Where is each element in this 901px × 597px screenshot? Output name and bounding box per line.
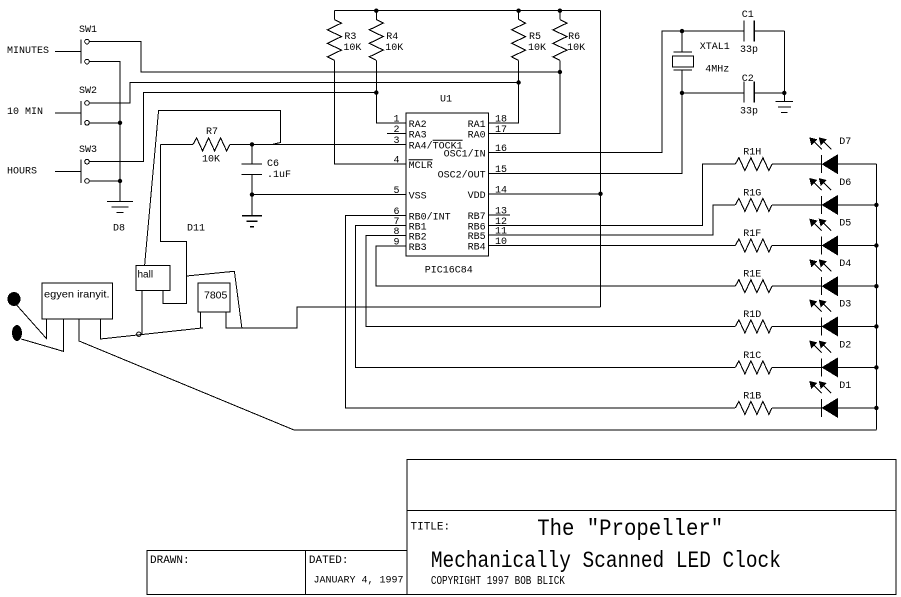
- junction R6 top on +5V rail: [558, 9, 562, 13]
- wire rectifier lead 4 raw DC bus to 7805 input: [100, 319, 203, 339]
- svg-text:R1G: R1G: [743, 188, 761, 199]
- svg-text:33p: 33p: [740, 107, 758, 118]
- wire pin15 OSC2/OUT to crystal bottom: [488, 93, 682, 174]
- svg-text:4: 4: [393, 155, 399, 166]
- LED D1: [810, 382, 876, 417]
- junction D2 on return rail: [874, 365, 878, 369]
- svg-text:D3: D3: [839, 299, 851, 310]
- wire R6 bottom to pin17 RA0: [488, 60, 560, 133]
- svg-text:RB0/INT: RB0/INT: [409, 211, 451, 223]
- svg-text:17: 17: [495, 125, 507, 136]
- wire pin11 RB5 to R1G row: [488, 205, 735, 235]
- svg-text:JANUARY 4, 1997: JANUARY 4, 1997: [314, 576, 404, 587]
- capacitor C6 .1uF: [242, 144, 263, 194]
- svg-text:RA0: RA0: [468, 131, 486, 142]
- wire hall ground lead: [141, 291, 143, 335]
- wire 7805 output to +5V rail: [226, 307, 600, 328]
- junction C2 right / ground: [782, 91, 786, 95]
- svg-text:R4: R4: [386, 32, 398, 43]
- resistor R1H: [735, 158, 821, 171]
- junction crystal bottom node: [680, 91, 684, 95]
- svg-text:RB5: RB5: [468, 232, 486, 243]
- junction SW1 wire on R6 line: [558, 70, 562, 74]
- svg-text:R1B: R1B: [743, 391, 761, 402]
- LED D3: [810, 300, 876, 335]
- svg-text:R6: R6: [568, 32, 580, 43]
- svg-text:RA3: RA3: [409, 131, 427, 142]
- resistor R3 10K: [327, 11, 341, 61]
- svg-text:R1F: R1F: [743, 229, 761, 240]
- junction R4 top on +5V rail: [374, 9, 378, 13]
- resistor R5 10K: [512, 11, 526, 61]
- ground symbol crystal: [776, 101, 794, 103]
- resistor R1D: [735, 320, 821, 333]
- svg-text:PIC16C84: PIC16C84: [425, 266, 473, 277]
- wire pin7 RB1 to R1C row: [356, 226, 735, 368]
- ground symbol below switches: [107, 201, 133, 203]
- wire +5V top rail: [334, 10, 600, 12]
- wire pin12 RB6 to R1H row: [488, 164, 735, 225]
- junction C6 bottom / VSS node: [250, 192, 254, 196]
- wire pin10 RB4 to R1F row: [488, 245, 735, 247]
- svg-text:COPYRIGHT 1997 BOB BLICK: COPYRIGHT 1997 BOB BLICK: [431, 574, 566, 588]
- wire rectifier lead 2 to AC blob 2: [21, 319, 63, 351]
- svg-text:U1: U1: [440, 94, 452, 105]
- wire pin8 RB2 to R1D row: [366, 235, 735, 326]
- wire R5 bottom to pin18 RA1: [488, 60, 518, 123]
- svg-text:RB3: RB3: [409, 243, 427, 254]
- svg-text:D7: D7: [839, 137, 851, 148]
- junction SW2 bottom on ground line: [118, 121, 122, 125]
- svg-text:D6: D6: [839, 178, 851, 189]
- ground symbol below C6: [251, 195, 253, 216]
- wire SW3 top contact to R4/pin1 net: [89, 93, 376, 162]
- wire rectifier lead 3 to LED return rail (long diagonal): [79, 319, 877, 430]
- svg-text:SW2: SW2: [79, 86, 97, 97]
- svg-text:C1: C1: [742, 10, 754, 21]
- svg-text:33p: 33p: [740, 45, 758, 56]
- LED D6: [810, 179, 876, 214]
- wire 5V branch from R7 node over 7805 to output net: [187, 271, 242, 328]
- junction D5 on return rail: [874, 243, 878, 247]
- wire pin6 RB0 to R1B row: [346, 215, 735, 408]
- svg-text:3: 3: [393, 136, 399, 147]
- svg-text:VDD: VDD: [468, 191, 486, 202]
- wire pin5 VSS to C6 ground node: [252, 194, 406, 196]
- svg-text:TITLE:: TITLE:: [411, 522, 451, 534]
- junction D1 on return rail: [874, 406, 878, 410]
- wire switch common ground line: [89, 62, 120, 202]
- svg-text:MINUTES: MINUTES: [7, 46, 49, 57]
- svg-text:OSC2/OUT: OSC2/OUT: [438, 170, 486, 182]
- resistor R4 10K: [369, 11, 383, 61]
- svg-text:HOURS: HOURS: [7, 167, 37, 178]
- svg-text:C2: C2: [742, 74, 754, 85]
- svg-text:R1D: R1D: [743, 310, 761, 321]
- title block outer box: [407, 459, 896, 594]
- svg-text:10K: 10K: [567, 43, 585, 54]
- junction D6 on return rail: [874, 203, 878, 207]
- resistor R6 10K: [553, 11, 567, 61]
- svg-text:10K: 10K: [528, 43, 546, 54]
- wire SW1 top contact to R6/pin17 net: [89, 42, 560, 72]
- svg-text:R1C: R1C: [743, 351, 761, 362]
- resistor R1G: [735, 198, 821, 211]
- wire LED common return rail: [875, 164, 877, 429]
- svg-text:10K: 10K: [385, 43, 403, 54]
- svg-text:C6: C6: [267, 159, 279, 170]
- svg-text:D1: D1: [839, 381, 851, 392]
- resistor R1F: [735, 239, 821, 252]
- junction SW3 bottom on ground line: [118, 179, 122, 183]
- LED D7: [810, 138, 876, 173]
- no-connect hook on hall ground lead: [137, 332, 141, 336]
- junction SW3 wire on R4 line: [374, 90, 378, 94]
- svg-text:egyen iranyit.: egyen iranyit.: [44, 289, 110, 301]
- junction SW2 wire on R5 line: [516, 80, 520, 84]
- wire SW2 top contact to R5/pin18 net: [89, 83, 518, 104]
- svg-text:R3: R3: [344, 32, 356, 43]
- pin 2 stub RA3: [387, 133, 406, 135]
- svg-text:R1E: R1E: [743, 270, 761, 281]
- svg-text:10: 10: [495, 237, 507, 248]
- svg-text:D11: D11: [187, 224, 205, 235]
- resistor R1B: [735, 401, 821, 414]
- junction D3 on return rail: [874, 324, 878, 328]
- svg-text:SW1: SW1: [79, 25, 97, 36]
- wire R7 left node down to hall V+ lead: [161, 144, 187, 303]
- svg-text:14: 14: [495, 185, 507, 196]
- resistor R1E: [735, 280, 821, 293]
- svg-text:Mechanically Scanned LED Clock: Mechanically Scanned LED Clock: [431, 548, 781, 574]
- svg-text:10K: 10K: [202, 155, 220, 166]
- wire hall output branch: pin3 node up-left run to hall sensor: [145, 110, 281, 265]
- svg-text:10K: 10K: [343, 43, 361, 54]
- switch SW2 pushbutton: [55, 101, 89, 125]
- wire pin14 VDD to +5V rail: [488, 193, 600, 195]
- svg-text:11: 11: [495, 227, 507, 238]
- rectifier box (egyen iranyit.): [42, 283, 113, 319]
- svg-text:.1uF: .1uF: [267, 170, 291, 181]
- svg-text:5: 5: [393, 186, 399, 197]
- svg-text:OSC1/IN: OSC1/IN: [444, 149, 486, 161]
- junction crystal top node: [680, 29, 684, 33]
- junction D4 on return rail: [874, 284, 878, 288]
- resistor R7 10K: [161, 138, 253, 151]
- svg-text:R5: R5: [529, 32, 541, 43]
- AC terminal blob 2: [13, 326, 22, 341]
- svg-text:9: 9: [393, 238, 399, 249]
- svg-text:RB2: RB2: [409, 232, 427, 243]
- svg-text:15: 15: [495, 165, 507, 176]
- wire rectifier lead 1 to AC blob 1: [17, 305, 47, 339]
- drawn/dated divider: [305, 551, 307, 595]
- svg-text:R7: R7: [206, 127, 218, 138]
- pin 13 stub RB7: [488, 214, 510, 216]
- wire crystal right side vertical: [783, 31, 785, 102]
- crystal XTAL1 4MHz: [673, 31, 694, 93]
- svg-text:DATED:: DATED:: [309, 555, 349, 567]
- svg-text:10 MIN: 10 MIN: [7, 107, 43, 118]
- junction R7/C6/pin3 node: [250, 142, 254, 146]
- LED D4: [810, 260, 876, 295]
- svg-text:DRAWN:: DRAWN:: [150, 555, 190, 567]
- svg-text:RB4: RB4: [468, 243, 486, 254]
- drawn/dated box: [147, 551, 407, 595]
- switch SW3 pushbutton: [55, 159, 89, 183]
- svg-text:D8: D8: [113, 224, 125, 235]
- wire R4 bottom to pin1 RA2: [376, 60, 406, 123]
- wire 7805 input lead: [200, 312, 202, 328]
- regulator 7805 box: [198, 283, 230, 312]
- LED D5: [810, 219, 876, 254]
- svg-text:7805: 7805: [204, 290, 228, 302]
- svg-text:SW3: SW3: [79, 145, 97, 156]
- svg-text:The "Propeller": The "Propeller": [537, 516, 723, 542]
- title block divider: [407, 510, 896, 512]
- wire R3 bottom to pin4 MCLR: [334, 60, 406, 163]
- svg-text:VSS: VSS: [409, 192, 427, 203]
- resistor R1C: [735, 361, 821, 374]
- svg-text:8: 8: [393, 227, 399, 238]
- wire pin16 OSC1/IN to crystal top: [488, 31, 744, 152]
- svg-text:D4: D4: [839, 259, 851, 270]
- svg-text:D2: D2: [839, 340, 851, 351]
- overline TOCK1: [433, 139, 463, 141]
- switch SW1 pushbutton: [55, 39, 89, 64]
- wire pin3 RA4/TOCK1 net (R7/C6 node to pin 3): [252, 143, 406, 145]
- overline MCLR: [409, 159, 433, 161]
- wire +5V vertical rail (pin14 VDD to 7805 output): [600, 11, 602, 307]
- junction pin14 on +5V rail: [598, 192, 602, 196]
- svg-text:XTAL1: XTAL1: [700, 42, 730, 53]
- junction R5 top on +5V rail: [516, 9, 520, 13]
- capacitor C2 33p: [682, 82, 784, 103]
- svg-text:MCLR: MCLR: [409, 161, 433, 172]
- svg-text:4MHz: 4MHz: [705, 65, 729, 76]
- hall sensor box: [136, 266, 170, 291]
- svg-text:D5: D5: [839, 219, 851, 230]
- svg-text:16: 16: [495, 144, 507, 155]
- svg-text:2: 2: [393, 125, 399, 136]
- svg-text:R1H: R1H: [743, 148, 761, 159]
- LED D2: [810, 341, 876, 376]
- AC terminal blob 1: [8, 293, 20, 306]
- wire pin9 RB3 to R1E row: [376, 246, 735, 286]
- capacitor C1 33p: [744, 21, 784, 42]
- svg-text:hall: hall: [138, 270, 154, 281]
- op IC U1 PIC16C84 body: [406, 113, 488, 256]
